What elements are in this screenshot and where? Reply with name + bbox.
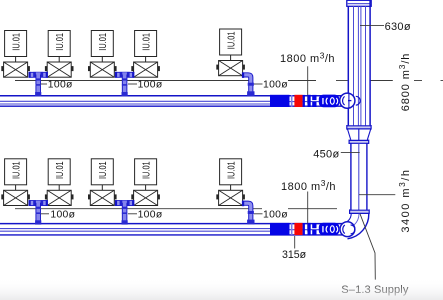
svg-text:100ø: 100ø <box>263 210 288 221</box>
riser flange above transition <box>347 125 372 130</box>
label leader 100ø t1 row2 <box>41 213 49 215</box>
branch tee pair 1 row 2 <box>29 200 48 224</box>
svg-text:100ø: 100ø <box>263 80 288 91</box>
supply main duct row 2 <box>0 224 345 235</box>
indoor unit IU.01 u5 row1 <box>216 29 245 76</box>
riser transition 630-450 <box>348 129 371 140</box>
label leader 100ø t3 row2 <box>254 213 263 215</box>
branch tee pair 1 row 1 <box>29 72 48 96</box>
junction circle damper row 1 <box>340 93 360 108</box>
label leader 100ø t1 row1 <box>41 83 47 85</box>
indoor unit IU.01 u4 row1 <box>131 31 160 78</box>
supply main duct row 1 <box>0 96 348 107</box>
bottom vignette gradient <box>0 278 443 300</box>
svg-text:450ø: 450ø <box>313 149 339 161</box>
branch tee pair 2 row 1 <box>115 72 134 96</box>
leader 315ø <box>294 236 296 249</box>
indoor unit IU.01 u4 row2 <box>131 159 160 206</box>
label leader 100ø t2 row2 <box>128 213 137 215</box>
leader 450ø <box>341 151 360 153</box>
indoor unit IU.01 u1 row1 <box>1 31 30 78</box>
duct fittings row 2 (damper, fire damper, flex, silencer) <box>270 223 339 236</box>
leader 1800 m3/h row 1 <box>307 66 309 103</box>
ceiling reference line row 2 <box>15 208 337 210</box>
section match line right of riser <box>371 80 443 82</box>
svg-text:100ø: 100ø <box>138 210 163 221</box>
branch elbow unit 5 row 1 <box>242 72 255 96</box>
indoor unit IU.01 u3 row2 <box>88 159 117 206</box>
leader 3400 m3/h <box>359 194 395 196</box>
svg-text:100ø: 100ø <box>138 80 163 91</box>
svg-text:315ø: 315ø <box>282 249 307 261</box>
indoor unit IU.01 u2 row2 <box>45 159 74 206</box>
riser duct 630 top flange <box>347 0 371 6</box>
branch elbow unit 5 row 2 <box>242 201 255 225</box>
svg-text:100ø: 100ø <box>50 210 75 221</box>
elbow riser to row 2 duct <box>341 214 369 239</box>
svg-text:6800 m3/h: 6800 m3/h <box>397 53 412 112</box>
branch tee pair 2 row 2 <box>115 200 134 224</box>
svg-text:100ø: 100ø <box>48 80 73 91</box>
leader S-1.3 Supply <box>360 214 375 280</box>
junction circle damper row 2 <box>340 222 355 237</box>
ceiling reference line row 1 <box>15 80 348 82</box>
label leader 100ø t3 row1 <box>254 83 263 85</box>
riser flange below transition <box>349 140 369 144</box>
riser duct 630 vertical <box>348 0 370 125</box>
leader 630ø <box>360 24 384 26</box>
indoor unit IU.01 u1 row2 <box>1 159 30 206</box>
svg-text:630ø: 630ø <box>385 21 411 33</box>
svg-text:1800 m3/h: 1800 m3/h <box>281 178 336 193</box>
duct fittings row 1 (damper, fire damper, flex, silencer) <box>270 95 339 108</box>
label leader 100ø t2 row1 <box>128 83 137 85</box>
riser flange above elbow <box>349 209 369 214</box>
indoor unit IU.01 u5 row2 <box>216 159 245 206</box>
leader 1800 m3/h row 2 <box>307 192 309 232</box>
svg-text:1800 m3/h: 1800 m3/h <box>280 50 335 65</box>
riser duct 450 vertical <box>351 143 367 210</box>
svg-text:3400 m3/h: 3400 m3/h <box>397 169 412 233</box>
indoor unit IU.01 u2 row1 <box>45 31 74 78</box>
indoor unit IU.01 u3 row1 <box>88 31 117 78</box>
